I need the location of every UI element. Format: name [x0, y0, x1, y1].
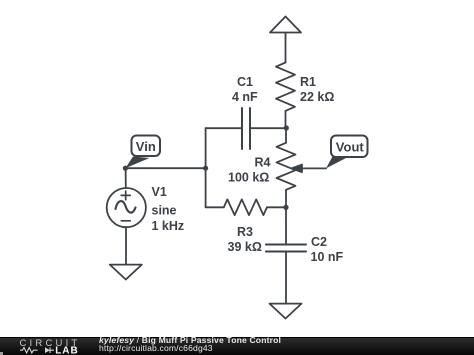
wire Vin node to V1 [125, 168, 127, 188]
wire C1 left lead [206, 127, 242, 129]
wire C2 to ground [285, 252, 287, 305]
logo diode [45, 347, 50, 353]
R4 wiper arrow [292, 165, 302, 173]
ground right [270, 304, 302, 319]
svg-text:sine: sine [152, 204, 177, 218]
capacitor C2 [266, 245, 306, 252]
svg-text:4 nF: 4 nF [232, 90, 258, 104]
node B dot [283, 205, 288, 210]
svg-text:R1: R1 [300, 75, 316, 89]
flag Vout [326, 136, 368, 169]
wire Vin node to middle junction [125, 167, 205, 169]
svg-text:C1: C1 [237, 75, 253, 89]
logo resistor squiggle [20, 348, 38, 353]
svg-text:39 kΩ: 39 kΩ [228, 240, 262, 254]
V1 plus [121, 191, 130, 200]
wire C1 right lead to node A [250, 127, 286, 129]
wire node B to C2 [285, 207, 287, 244]
potentiometer R4 [277, 143, 296, 190]
node A dot [284, 125, 289, 130]
svg-text:C2: C2 [311, 235, 327, 249]
svg-text:LAB: LAB [55, 346, 79, 355]
wire top terminal to R1 [285, 33, 287, 63]
svg-text:22 kΩ: 22 kΩ [300, 90, 334, 104]
svg-text:Vout: Vout [336, 140, 365, 155]
V1 sine [116, 201, 136, 213]
ground left [110, 265, 142, 280]
svg-text:R4: R4 [255, 156, 271, 170]
svg-text:R3: R3 [237, 225, 253, 239]
wire R1 to node A [285, 111, 287, 128]
wire Vout to wiper [300, 167, 326, 169]
wire V1 to ground [125, 227, 127, 265]
resistor R1 [276, 63, 295, 111]
credit text [99, 336, 281, 353]
flag Vin [125, 136, 160, 169]
node T-junction dot [203, 166, 208, 171]
capacitor C1 [242, 108, 250, 149]
node Vin dot [123, 166, 128, 171]
circuitlab logo [19, 338, 85, 355]
svg-text:100 kΩ: 100 kΩ [228, 171, 269, 185]
svg-text:10 nF: 10 nF [311, 250, 344, 264]
svg-text:V1: V1 [152, 185, 167, 199]
wire R4 to node B [285, 190, 287, 208]
svg-text:1 kHz: 1 kHz [152, 219, 185, 233]
svg-text:Vin: Vin [136, 139, 156, 154]
footer bar [0, 337, 474, 355]
wire R3 left lead [206, 206, 224, 208]
wire R3 right lead to node B [267, 206, 286, 208]
corner resize mark [0, 352, 3, 355]
top terminal triangle (up) [270, 17, 301, 33]
wire middle vertical [205, 128, 207, 207]
resistor R3 [224, 199, 267, 215]
source V1 [107, 188, 146, 227]
wire node A to R4 [285, 128, 287, 143]
V1 minus [121, 220, 130, 222]
